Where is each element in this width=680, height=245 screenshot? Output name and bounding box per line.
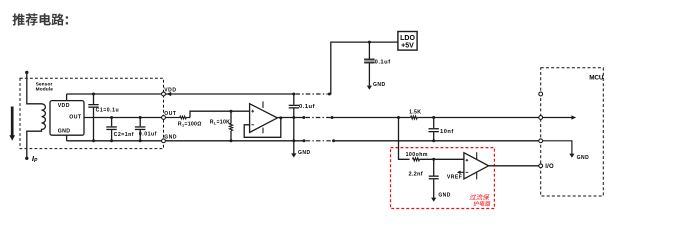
resistor RL 10K xyxy=(230,110,233,113)
VREF input xyxy=(459,171,464,173)
MCU terminal I/O xyxy=(539,164,543,168)
OUT rail to MCU xyxy=(332,117,411,119)
svg-text:2.2nf: 2.2nf xyxy=(409,171,423,177)
ground symbol 2.2nf xyxy=(431,198,436,202)
OUT rail break (dash-dot) xyxy=(302,116,305,119)
primary winding L1 (wire + coil) xyxy=(27,72,46,158)
U3 plus mark xyxy=(466,159,469,161)
svg-text:VDD: VDD xyxy=(58,103,70,109)
OUT arrow inside MCU xyxy=(543,117,573,119)
VDD feed wire to LDO xyxy=(329,42,398,94)
U2 power stubs xyxy=(262,101,264,108)
branch down to protection xyxy=(397,116,400,119)
svg-text:Module: Module xyxy=(36,87,54,93)
MCU terminal GND xyxy=(539,139,543,143)
svg-text:GND: GND xyxy=(58,128,71,134)
U3 minus mark xyxy=(466,171,469,173)
svg-text:OUT: OUT xyxy=(69,114,82,120)
svg-text:0.1uf: 0.1uf xyxy=(299,104,315,110)
comparator U3 xyxy=(464,153,489,179)
svg-text:0.1uf: 0.1uf xyxy=(375,59,391,65)
svg-text:0.01uf: 0.01uf xyxy=(139,131,157,137)
resistor 100ohm xyxy=(413,158,420,161)
VDD rail (sensor) xyxy=(67,93,164,95)
U1 GND pin riser xyxy=(66,135,68,141)
svg-text:+5V: +5V xyxy=(401,43,414,50)
ground symbol LDO xyxy=(367,86,372,90)
MCU terminal VDD (unconnected) xyxy=(539,92,543,96)
svg-text:GND: GND xyxy=(373,82,386,88)
svg-text:R1=100Ω: R1=100Ω xyxy=(178,121,202,127)
U3 output wire to I/O xyxy=(489,165,541,167)
svg-text:C2=1nf: C2=1nf xyxy=(114,132,134,138)
resistor 1.5K xyxy=(411,116,418,119)
svg-text:GND: GND xyxy=(438,192,450,198)
GND wire inside MCU xyxy=(543,141,572,154)
svg-text:Sensor: Sensor xyxy=(36,81,53,87)
op-amp U2 buffer xyxy=(250,104,278,133)
svg-text:10nf: 10nf xyxy=(440,129,454,135)
capacitor 10nf branch xyxy=(432,116,435,119)
svg-text:VREF: VREF xyxy=(447,174,462,180)
svg-text:GND: GND xyxy=(164,134,177,140)
arrow into VDD terminal xyxy=(167,92,172,96)
svg-text:RL=10K: RL=10K xyxy=(210,120,230,126)
svg-text:LDO: LDO xyxy=(400,35,415,42)
red label 过流保护电路 xyxy=(468,194,492,206)
MCU dashed box xyxy=(541,68,604,196)
U1 VDD pin riser xyxy=(66,94,68,101)
svg-text:C1=0.1u: C1=0.1u xyxy=(96,108,120,114)
node IP bottom xyxy=(25,157,28,160)
capacitor 0.1uf decoupling branch xyxy=(292,93,295,96)
wire jog up to opamp xyxy=(190,111,250,117)
sensor module dashed box xyxy=(20,78,164,148)
U2 plus mark xyxy=(251,110,254,112)
current direction arrow Ip xyxy=(11,107,14,136)
GND rail to MCU xyxy=(334,140,541,142)
U2 output wire xyxy=(277,117,303,119)
svg-text:100ohm: 100ohm xyxy=(406,152,428,158)
capacitor 2.2nf branch xyxy=(432,158,435,161)
sensor module label xyxy=(36,81,54,92)
capacitor 0.1uf at LDO xyxy=(368,41,371,44)
resistor R1 100ohm xyxy=(165,117,180,119)
GND rail break (dash-dot) xyxy=(303,139,306,142)
GND rail (sensor) xyxy=(67,140,164,142)
svg-text:I/O: I/O xyxy=(545,164,554,170)
capacitor C2 1nf branch xyxy=(111,118,113,127)
svg-text:MCU: MCU xyxy=(589,74,604,81)
svg-text:1.5K: 1.5K xyxy=(409,110,421,116)
terminal GND xyxy=(162,139,166,143)
terminal VDD xyxy=(162,92,166,96)
svg-text:GND: GND xyxy=(577,155,590,161)
LDO regulator xyxy=(398,32,417,51)
U3 power stubs xyxy=(476,152,478,159)
node IP top xyxy=(25,71,28,74)
red dashed protection box xyxy=(391,148,495,209)
MCU terminal OUT xyxy=(539,116,543,120)
U2 minus mark xyxy=(251,124,254,126)
terminal OUT xyxy=(162,116,166,120)
OUT wire U1 to terminal xyxy=(84,117,164,119)
title 推荐电路: xyxy=(12,13,68,25)
ground symbol xyxy=(291,153,296,157)
GND rail sensor to cap xyxy=(165,140,304,142)
VDD rail break (dash-dot) xyxy=(296,93,328,95)
svg-text:GND: GND xyxy=(298,150,311,156)
sensor IC U1 xyxy=(50,101,84,136)
capacitor 0.01uf branch xyxy=(139,118,141,127)
svg-text:OUT: OUT xyxy=(164,111,176,117)
U2 feedback loop xyxy=(244,118,281,137)
VDD rail sensor to cap xyxy=(165,93,293,95)
capacitor C1 0.1u branch xyxy=(93,94,95,104)
